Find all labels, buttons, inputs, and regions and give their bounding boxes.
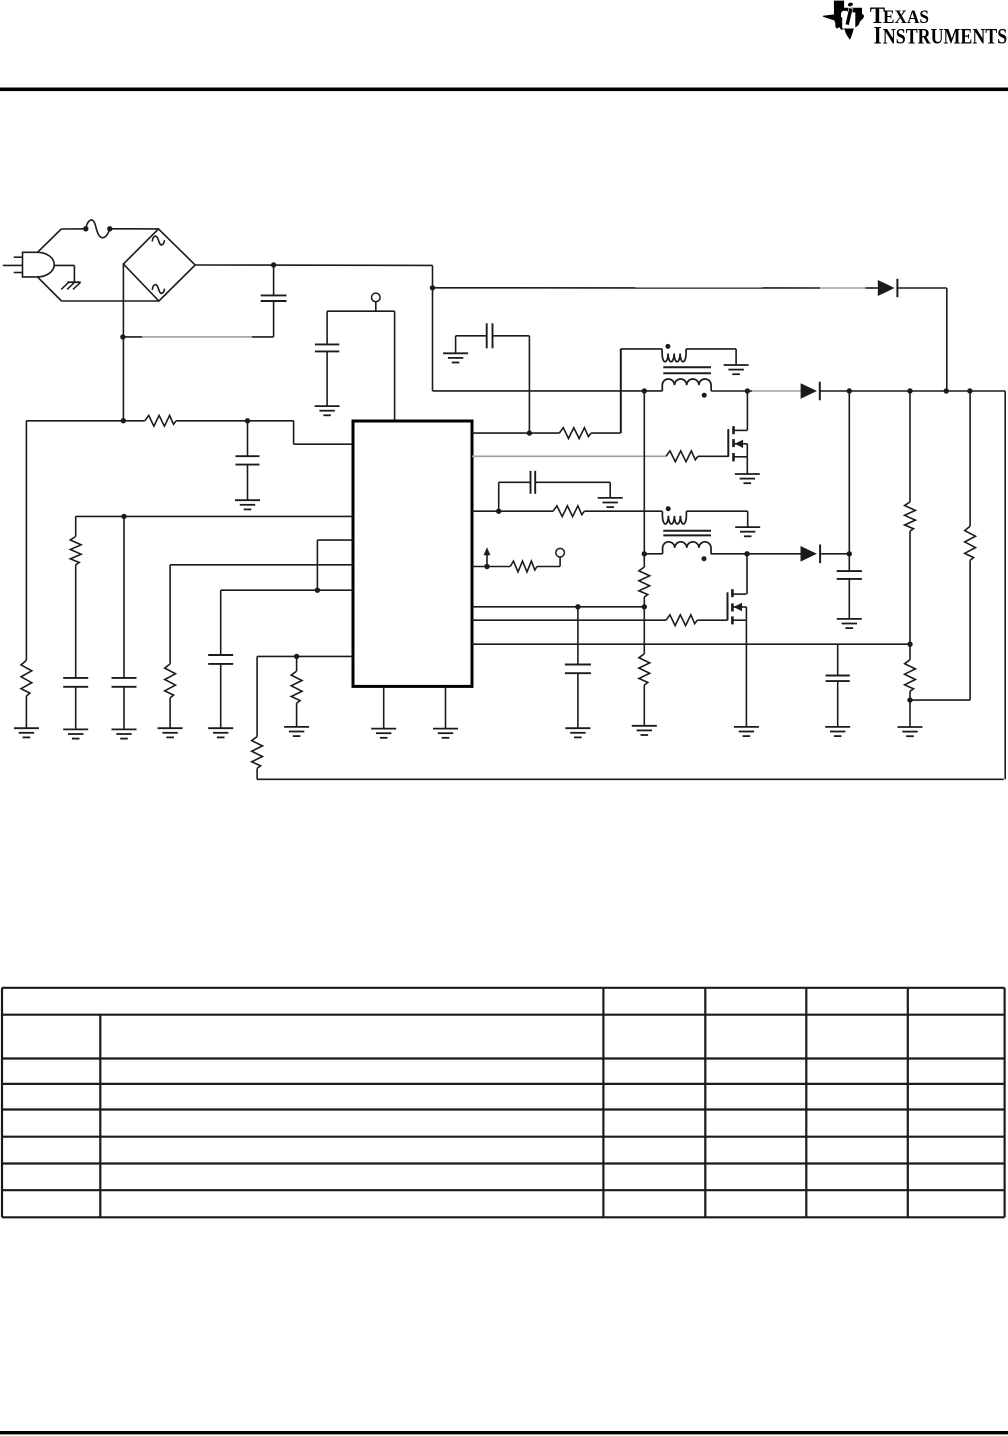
wire R2 to ground (25, 696, 27, 728)
wire C9 to gnd (577, 673, 579, 728)
wire M1 drain (746, 391, 748, 430)
ground M1 (735, 474, 760, 483)
node bulk cap top (271, 262, 276, 267)
ground IC pin1 (371, 729, 396, 738)
node x910 bottom (907, 697, 912, 702)
node x910 rail2 (907, 642, 912, 647)
wire R15 out (909, 691, 911, 700)
wire pinR2 gate1 (472, 455, 666, 457)
node startup cap (245, 418, 250, 423)
fuse F1 (86, 220, 110, 238)
node pin3-pin5 tie (315, 588, 320, 593)
node pin6 (294, 654, 299, 659)
diode D1 (878, 279, 898, 298)
node T2 rail right (744, 551, 749, 556)
wire pin5 branch (220, 590, 222, 655)
wire pinR5 (472, 606, 644, 608)
capacitor C2 startup (236, 456, 260, 464)
wire pinR7 gnd rail (472, 643, 910, 645)
node T2 rail left (642, 551, 647, 556)
wire R9 to T2 aux (584, 510, 662, 512)
wire D3 cathode (820, 553, 849, 555)
wire cap column x124 (123, 516, 125, 678)
wire pin3 (317, 540, 353, 590)
wire R8 to M1 gate (698, 455, 728, 457)
resistor R2 (21, 660, 32, 696)
node pinR1 cap tap (527, 430, 532, 435)
transistor M1 (728, 426, 747, 461)
node pinR3 tap (496, 509, 501, 514)
resistor R3 (70, 537, 81, 565)
wire pin VIN rail (76, 515, 353, 517)
logo text TEXAS (870, 3, 929, 28)
wire D1 cathode to output rail (897, 288, 946, 391)
wire out1 cap column (848, 391, 850, 554)
ground C3 (315, 406, 340, 415)
wire C4 to gnd (75, 687, 77, 730)
capacitor bulk C1 (261, 295, 287, 301)
node pinR5 cap tap (575, 604, 580, 609)
wire R11 to M2 gate (697, 619, 727, 621)
svg-text:I: I (874, 23, 882, 50)
resistor R16 (965, 526, 976, 560)
wire C3 to ground (326, 351, 328, 406)
wire R12 leads (643, 554, 645, 607)
wire R6 to gnd (296, 703, 298, 727)
wire pin6 FB (257, 655, 353, 657)
wire right edge (1004, 391, 1006, 779)
wire M2 source to gnd (745, 620, 747, 727)
resistor R6 (291, 671, 302, 703)
wire x910 gnd (909, 700, 911, 727)
wire C10 to gnd (848, 579, 850, 619)
wire R13 to gnd (643, 685, 645, 726)
node out2 (847, 551, 852, 556)
capacitor C7 (487, 323, 493, 348)
node pin2 cap (121, 514, 126, 519)
wire C7 to gnd (456, 336, 487, 354)
header rule (0, 88, 1008, 92)
wire T1 aux link (620, 349, 622, 433)
wire R10 to terminal (537, 557, 560, 567)
ground C9 (565, 728, 590, 737)
transformer T1 aux winding (662, 349, 686, 362)
transformer T2 aux winding (662, 511, 686, 524)
footer rule (0, 1431, 1008, 1434)
ground C10 (837, 619, 862, 628)
wire startup cap lead (247, 421, 249, 500)
wire startup rail left (26, 420, 144, 422)
node fuse right (107, 226, 112, 231)
Texas Instruments logo - Texas state glyph with ti (823, 1, 863, 39)
wire feedback line (257, 778, 1004, 780)
ground IC pin2 (433, 729, 458, 738)
resistor R10 (510, 561, 537, 572)
wire pinR1 (472, 432, 559, 434)
wire DC- vertical (122, 264, 124, 421)
capacitor C11 (826, 676, 850, 682)
table grid (2, 988, 1005, 1218)
arrow CS (484, 547, 491, 566)
wire cap tap up (493, 336, 530, 433)
transistor M2 (728, 589, 747, 624)
wire left HV column (25, 421, 27, 661)
node T2 polarity dot (702, 556, 707, 561)
wire R4 to gnd (169, 698, 171, 728)
capacitor C10 (837, 571, 862, 579)
wire T2 col x644 (643, 391, 645, 554)
node T1 rail right (745, 388, 750, 393)
resistor R15 (905, 660, 916, 692)
resistor R5 feedback (252, 737, 263, 769)
wire col x910 mid (909, 531, 911, 660)
capacitor C5 (112, 678, 137, 687)
wire startup jog to IC pin (294, 421, 353, 444)
chassis ground (61, 282, 80, 289)
wire pin2 branch down (75, 516, 77, 536)
wire IC gnd pin2 (445, 686, 447, 728)
diode D3 (801, 545, 821, 564)
node out1 a (847, 388, 852, 393)
svg-text:NSTRUMENTS: NSTRUMENTS (883, 25, 1007, 49)
resistor R12 (639, 567, 650, 597)
resistor R13 (639, 654, 650, 685)
wire plug bottom to bridge (38, 277, 159, 301)
wire rail2 cap lead (837, 644, 839, 675)
resistor R9 (553, 506, 584, 517)
ground x910 (898, 727, 923, 736)
ground startup cap (235, 500, 260, 509)
wire VREF (327, 302, 395, 420)
wire col x910 upper (909, 391, 911, 502)
terminal circle VREF (372, 293, 381, 302)
wire x644 down (643, 607, 645, 654)
capacitor C6 (208, 655, 233, 664)
wire HV line to diode D1 (433, 287, 866, 289)
capacitor C4 (63, 678, 88, 687)
ground T1 aux (724, 365, 749, 374)
wire pinR6 gate2 (472, 619, 666, 621)
ground C8 (598, 498, 623, 507)
wire out2 cap lead (848, 554, 850, 571)
wire T2 rail (644, 553, 800, 555)
wire C6 to gnd (220, 664, 222, 728)
ground T2 aux (735, 527, 760, 536)
resistor R8 gate1 (666, 451, 698, 462)
wire T2 aux to gnd (686, 511, 747, 527)
node x644 mid (642, 604, 647, 609)
wire C8 to gnd (535, 482, 610, 498)
wire R3 to cap (75, 565, 77, 678)
node T1 rail left (642, 388, 647, 393)
transformer T2 primary (663, 542, 711, 554)
capacitor C3 vref (315, 344, 339, 351)
node out1 b (907, 388, 912, 393)
ground R4 (158, 728, 183, 737)
ground M2 (734, 727, 759, 736)
wire M2 drain (746, 554, 748, 594)
wire IC gnd pin1 (383, 686, 385, 728)
wire pin6 corner down (256, 656, 258, 736)
node fuse left (83, 226, 88, 231)
wire sense link (910, 560, 970, 700)
transformer T1 primary (662, 379, 711, 391)
wire R7 to T1 aux (591, 349, 662, 433)
resistor R11 gate2 (666, 615, 697, 626)
ground C6 (208, 728, 233, 737)
node T1 aux polarity dot (665, 344, 670, 349)
ground R2 (14, 728, 39, 737)
wire pinR3 (472, 510, 553, 512)
wire plug earth lead (54, 265, 74, 282)
wire pinR4 CS (472, 566, 510, 568)
wire plug to fuse (38, 229, 86, 253)
node CS (484, 564, 489, 569)
wire pinR3 comp loop (499, 482, 531, 511)
capacitor C8 (531, 471, 536, 494)
wire M1 source to gnd (746, 457, 748, 474)
resistor R7 (559, 428, 591, 439)
node HV line tap (430, 285, 435, 290)
logo text INSTRUMENTS (874, 23, 1008, 50)
wire D2 cathode rail (820, 390, 1005, 392)
terminal circle CS (556, 548, 565, 557)
ground R13 (632, 726, 657, 735)
transformer T1 core (663, 367, 711, 373)
wire C5 to gnd (123, 687, 125, 730)
wire bulk cap to DC- node (123, 336, 274, 338)
ground C7 (443, 353, 468, 362)
ground C4 (63, 729, 88, 738)
wire C11 to gnd (837, 681, 839, 727)
wire D1 anode stub (865, 287, 877, 289)
node out1 c (944, 388, 949, 393)
wire pin6 pulldown (296, 656, 298, 671)
wire T1 aux to gnd (686, 349, 736, 365)
wire pin4 (170, 565, 353, 664)
capacitor C9 (565, 665, 591, 674)
transformer T2 core (663, 531, 711, 536)
node T1 polarity dot (702, 393, 707, 398)
wire startup rail right (176, 420, 294, 422)
node DC- junction (120, 334, 125, 339)
wire pin5 (221, 589, 353, 591)
node T2 aux polarity dot (666, 506, 671, 511)
diode D2 (801, 382, 820, 401)
wire R5 to feedback line (256, 768, 258, 779)
ground C5 (112, 729, 137, 738)
ground C11 (825, 727, 850, 736)
wire T1 rail (433, 390, 801, 392)
bridge rectifier BR1 (123, 229, 195, 301)
node startup rail / DC- (121, 418, 126, 423)
ground R6 (284, 727, 309, 736)
wire fuse to bridge (110, 228, 159, 230)
wire R16 top (969, 391, 971, 526)
node out1 d (967, 388, 972, 393)
resistor R1 startup (145, 415, 176, 426)
resistor R4 (165, 664, 176, 698)
controller IC U1 (353, 421, 472, 686)
wire DC+ rail (195, 265, 432, 391)
wire bulk cap leads (273, 265, 275, 337)
AC plug P1 (3, 252, 54, 277)
wire cap column x578 (577, 607, 579, 665)
resistor R14 (905, 502, 916, 531)
